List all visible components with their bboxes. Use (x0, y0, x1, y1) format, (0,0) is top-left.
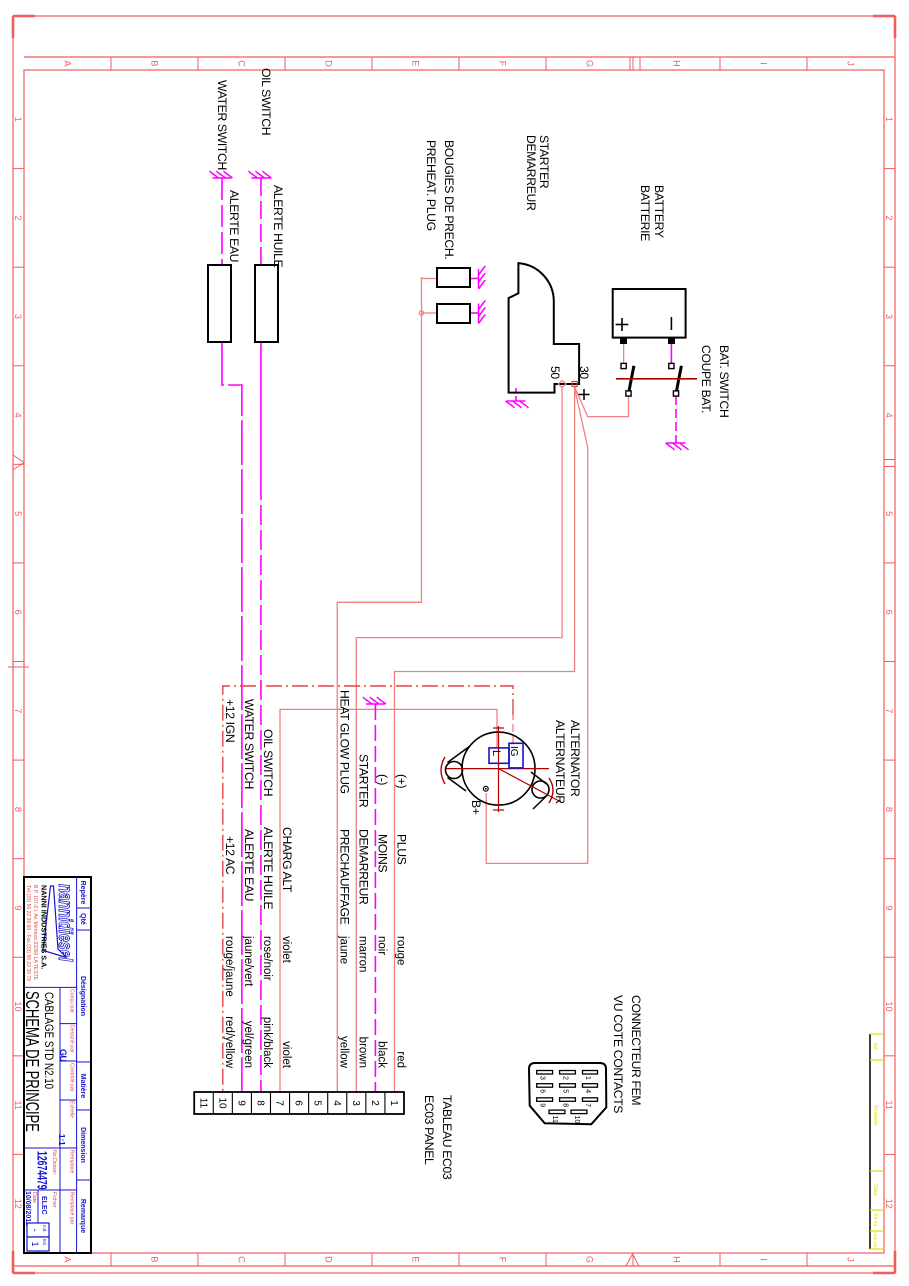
svg-text:Date: Date (31, 1192, 37, 1203)
svg-text:9: 9 (235, 1100, 246, 1106)
svg-text:red: red (394, 1051, 406, 1068)
svg-text:STARTER: STARTER (537, 135, 551, 189)
svg-text:PRECHAUFFAGE: PRECHAUFFAGE (337, 829, 351, 925)
svg-text:C: C (236, 60, 246, 67)
svg-text:WATER SWITCH: WATER SWITCH (215, 80, 229, 170)
svg-text:3: 3 (350, 1100, 361, 1106)
svg-text:(+): (+) (394, 774, 408, 788)
svg-text:Matière: Matière (79, 1074, 86, 1099)
svg-text:CHARG ALT: CHARG ALT (280, 827, 294, 893)
svg-text:3: 3 (884, 314, 894, 319)
svg-text:12: 12 (13, 1199, 23, 1209)
svg-text:ALERTE HUILE: ALERTE HUILE (271, 185, 285, 267)
svg-text:Repère: Repère (79, 881, 86, 905)
svg-text:7: 7 (13, 708, 23, 713)
svg-text:Désignation: Désignation (79, 976, 86, 1016)
svg-text:7: 7 (584, 1103, 591, 1107)
svg-text:IG: IG (508, 746, 519, 757)
svg-text:marron: marron (356, 936, 368, 972)
svg-text:G: G (584, 60, 594, 67)
svg-text:BOUGIES DE PRECH.: BOUGIES DE PRECH. (442, 140, 456, 259)
svg-text:HEAT GLOW PLUG: HEAT GLOW PLUG (337, 690, 351, 794)
svg-text:Ed.: Ed. (42, 1239, 47, 1246)
svg-text:G: G (584, 1256, 594, 1263)
svg-text:DEMARREUR: DEMARREUR (524, 135, 538, 211)
svg-text:-: - (30, 1229, 40, 1232)
svg-text:2: 2 (369, 1100, 380, 1106)
svg-text:BAT. SWITCH: BAT. SWITCH (717, 345, 731, 417)
svg-text:ALTERNATOR: ALTERNATOR (568, 720, 582, 797)
svg-text:yellow: yellow (337, 1036, 349, 1069)
svg-text:2: 2 (562, 1076, 569, 1080)
svg-text:10: 10 (573, 1116, 580, 1124)
svg-text:2: 2 (884, 215, 894, 220)
svg-text:No Dessin: No Dessin (51, 1150, 57, 1174)
svg-text:8: 8 (13, 807, 23, 812)
svg-text:B: B (149, 60, 159, 66)
svg-text:1: 1 (13, 117, 23, 122)
svg-text:TABLEAU EC03: TABLEAU EC03 (440, 1095, 454, 1180)
svg-text:F: F (497, 61, 507, 67)
svg-text:A: A (62, 1256, 72, 1263)
svg-text:1: 1 (388, 1100, 399, 1106)
svg-text:8: 8 (254, 1100, 265, 1106)
svg-text:6: 6 (13, 610, 23, 615)
svg-text:10/08/2011: 10/08/2011 (24, 1191, 31, 1226)
svg-text:Ind: Ind (872, 1043, 878, 1050)
svg-text:6: 6 (539, 1089, 546, 1093)
svg-text:rouge/jaune: rouge/jaune (223, 936, 235, 997)
svg-text:7: 7 (274, 1100, 285, 1106)
svg-text:ALERTE HUILE: ALERTE HUILE (261, 827, 275, 909)
svg-text:2: 2 (13, 215, 23, 220)
svg-text:D: D (323, 1256, 333, 1263)
svg-text:STARTER: STARTER (356, 754, 370, 808)
svg-text:4: 4 (331, 1100, 342, 1106)
svg-text:J: J (845, 61, 855, 66)
svg-text:9: 9 (13, 905, 23, 910)
svg-text:pink/black: pink/black (261, 1017, 273, 1068)
svg-text:5: 5 (884, 511, 894, 516)
svg-text:GU: GU (58, 1049, 68, 1062)
svg-text:8: 8 (562, 1103, 569, 1107)
svg-text:PREHEAT. PLUG: PREHEAT. PLUG (424, 140, 438, 231)
svg-text:H: H (671, 1256, 681, 1263)
svg-text:SCHEMA DE PRINCIPE: SCHEMA DE PRINCIPE (21, 991, 41, 1132)
svg-text:BATTERY: BATTERY (652, 185, 666, 238)
svg-text:jaune: jaune (337, 935, 349, 964)
svg-text:ALERTE EAU: ALERTE EAU (242, 829, 256, 901)
svg-text:PLUS: PLUS (394, 834, 408, 865)
svg-text:ELEC: ELEC (40, 1196, 47, 1215)
svg-text:+12 IGN: +12 IGN (223, 699, 237, 742)
svg-text:30: 30 (577, 366, 591, 379)
svg-text:Qté: Qté (79, 913, 86, 925)
svg-text:CONNECTEUR FEM: CONNECTEUR FEM (629, 995, 643, 1105)
svg-text:Dimension: Dimension (79, 1127, 86, 1163)
svg-text:1: 1 (884, 117, 894, 122)
svg-text:B.P. 107-Z.I. Av. Mermoz-33260: B.P. 107-Z.I. Av. Mermoz-33260 LA TESTE (32, 885, 38, 981)
svg-text:Tél.(33) 56 22 39 68 - Fax.(33: Tél.(33) 56 22 39 68 - Fax.(33) 56 22 39… (25, 885, 31, 981)
svg-text:Ind.: Ind. (42, 1225, 47, 1233)
svg-text:Revision: Revision (872, 1104, 878, 1125)
svg-text:Dessiné par: Dessiné par (69, 1025, 75, 1053)
svg-text:J: J (845, 1257, 855, 1262)
svg-text:Date: Date (872, 1184, 878, 1196)
svg-text:ALTERNATEUR: ALTERNATEUR (553, 720, 567, 804)
svg-text:B+: B+ (469, 800, 483, 815)
svg-text:3: 3 (13, 314, 23, 319)
svg-text:1: 1 (584, 1076, 591, 1080)
svg-text:11: 11 (13, 1100, 23, 1110)
svg-text:D: D (323, 60, 333, 67)
svg-text:4: 4 (584, 1089, 591, 1093)
svg-text:B: B (149, 1256, 159, 1262)
svg-text:H: H (671, 60, 681, 67)
svg-text:9: 9 (539, 1103, 546, 1107)
svg-text:black: black (375, 1041, 387, 1068)
svg-text:WATER SWITCH: WATER SWITCH (242, 699, 256, 789)
svg-text:violet: violet (280, 936, 292, 964)
svg-text:5: 5 (13, 511, 23, 516)
svg-text:NANNI INDUSTRIES S.A.: NANNI INDUSTRIES S.A. (40, 885, 49, 969)
svg-text:red/yellow: red/yellow (223, 1016, 235, 1068)
svg-text:BATTERIE: BATTERIE (638, 185, 652, 241)
svg-text:11: 11 (884, 1100, 894, 1110)
svg-text:I: I (758, 62, 768, 65)
svg-text:App par: App par (873, 1232, 878, 1249)
svg-text:5: 5 (562, 1089, 569, 1093)
svg-text:50: 50 (548, 366, 562, 379)
svg-text:+12 AC: +12 AC (223, 836, 237, 875)
svg-text:1: 1 (30, 1241, 40, 1246)
svg-text:OIL SWITCH: OIL SWITCH (259, 68, 273, 135)
svg-text:L: L (490, 750, 502, 756)
svg-text:F: F (497, 1257, 507, 1263)
svg-text:EC03 PANEL: EC03 PANEL (422, 1095, 436, 1165)
svg-text:6: 6 (293, 1100, 304, 1106)
svg-text:MOINS: MOINS (375, 834, 389, 872)
svg-text:Echelle: Echelle (69, 1101, 75, 1118)
svg-text:E: E (410, 1256, 420, 1262)
svg-text:yel/green: yel/green (242, 1021, 254, 1068)
svg-text:10: 10 (13, 1001, 23, 1011)
svg-text:12: 12 (884, 1199, 894, 1209)
svg-text:violet: violet (280, 1041, 292, 1069)
svg-text:5: 5 (312, 1100, 323, 1106)
svg-text:12674479: 12674479 (34, 1151, 50, 1190)
svg-text:I: I (758, 1258, 768, 1261)
svg-text:8: 8 (884, 807, 894, 812)
svg-text:DEMARREUR: DEMARREUR (356, 829, 370, 905)
svg-text:A: A (62, 60, 72, 67)
svg-text:Remplace: Remplace (69, 1150, 75, 1173)
svg-text:Fichier: Fichier (51, 1192, 57, 1208)
svg-text:(-): (-) (375, 774, 389, 785)
svg-text:Remarque: Remarque (79, 1199, 86, 1233)
svg-text:rose/noir: rose/noir (261, 936, 273, 981)
svg-text:brown: brown (356, 1037, 368, 1068)
svg-text:4: 4 (884, 412, 894, 417)
svg-text:4: 4 (13, 412, 23, 417)
svg-text:10: 10 (216, 1097, 227, 1109)
svg-text:E: E (410, 60, 420, 66)
svg-text:Inf ou: Inf ou (872, 1214, 878, 1227)
svg-text:C: C (236, 1256, 246, 1263)
svg-text:11: 11 (197, 1098, 208, 1109)
svg-text:1:1: 1:1 (57, 1134, 66, 1146)
svg-text:VU COTE CONTACTS: VU COTE CONTACTS (611, 995, 625, 1113)
svg-text:7: 7 (884, 708, 894, 713)
svg-text:11: 11 (551, 1116, 558, 1123)
svg-text:rouge: rouge (394, 936, 406, 965)
svg-text:noir: noir (375, 936, 387, 955)
svg-text:ALERTE EAU: ALERTE EAU (227, 190, 241, 262)
svg-text:9: 9 (884, 905, 894, 910)
svg-text:OIL SWITCH: OIL SWITCH (261, 729, 275, 796)
svg-text:10: 10 (884, 1001, 894, 1011)
svg-text:6: 6 (884, 610, 894, 615)
svg-text:Remplacé par: Remplacé par (69, 1192, 75, 1225)
svg-text:COUPE BAT.: COUPE BAT. (699, 345, 713, 413)
svg-text:jaune/vert: jaune/vert (242, 935, 254, 987)
svg-text:CABLAGE STD N2.10: CABLAGE STD N2.10 (42, 992, 55, 1089)
svg-text:Conçu par: Conçu par (69, 989, 75, 1013)
svg-text:Contrôlé par: Contrôlé par (69, 1063, 75, 1092)
svg-text:3: 3 (539, 1076, 546, 1080)
